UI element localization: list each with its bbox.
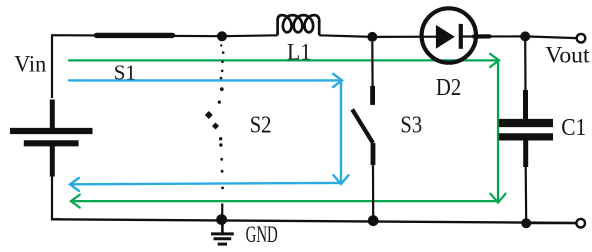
current path blue return segment with left arrow [70, 178, 341, 191]
wire node C to Vout terminal [525, 36, 576, 38]
battery Vin negative lead (thick) [50, 146, 55, 177]
capacitor C1 top lead (thick) [523, 90, 528, 119]
node B junction [367, 32, 377, 42]
svg-text:S3: S3 [400, 112, 422, 138]
svg-text:GND: GND [246, 222, 278, 247]
current path green vertical segment with down arrow [490, 60, 505, 202]
wire node A to inductor L1 [222, 34, 278, 37]
battery Vin positive lead (thick) [50, 100, 55, 129]
node D junction (GND node) [216, 214, 227, 225]
svg-text:D2: D2 [436, 75, 461, 101]
switch S2 (open, dotted line) [205, 44, 225, 215]
svg-text:S1: S1 [114, 61, 136, 85]
thick wire stub at D2 cathode output [474, 34, 490, 38]
ground GND stem [221, 220, 224, 233]
battery Vin long plate [10, 128, 93, 134]
node C junction [520, 31, 530, 41]
current path S1-phase (green) top segment with right arrow [69, 54, 499, 67]
svg-text:C1: C1 [561, 115, 586, 141]
svg-text:S2: S2 [250, 112, 272, 138]
capacitor C1 bottom plate [499, 133, 553, 140]
battery Vin short plate [24, 140, 79, 146]
inductor L1 [278, 15, 320, 35]
wire top: Vin corner to node A [52, 35, 222, 98]
wire inductor L1 to node B [319, 35, 372, 37]
node F junction [521, 218, 531, 228]
terminal Vout (open circle) [577, 34, 586, 43]
ground GND bar 2 [214, 237, 232, 240]
wire node C down to capacitor C1 [524, 39, 526, 92]
svg-text:L1: L1 [287, 40, 311, 65]
diode D2 (circled) [422, 8, 476, 62]
svg-text:Vin: Vin [14, 52, 46, 77]
current path green return segment with left arrow [71, 195, 498, 208]
wire bottom rail [52, 219, 576, 223]
wire left vertical below battery to bottom corner [52, 176, 60, 219]
terminal bottom-right (open circle) [576, 219, 585, 228]
current path blue vertical segment with down arrow [333, 80, 348, 184]
thick wire segment (closed switch S1) on top wire [97, 33, 173, 38]
capacitor C1 bottom lead (thick) [523, 141, 528, 168]
svg-text:Vout: Vout [545, 43, 590, 68]
current path S2-phase (blue) top segment with right arrow [69, 74, 342, 87]
node A junction [217, 31, 227, 41]
wire capacitor C1 to bottom rail [525, 166, 528, 223]
switch S3 (open) [352, 42, 373, 221]
wire node B to diode D2 anode [372, 36, 437, 38]
wire bottom rail to output terminal [526, 222, 576, 224]
wire diode D2 cathode to node C [462, 35, 525, 37]
capacitor C1 top plate [499, 119, 553, 127]
ground GND bar 1 [211, 232, 234, 235]
ground GND bar 3 [218, 243, 227, 246]
node E junction [368, 215, 379, 226]
